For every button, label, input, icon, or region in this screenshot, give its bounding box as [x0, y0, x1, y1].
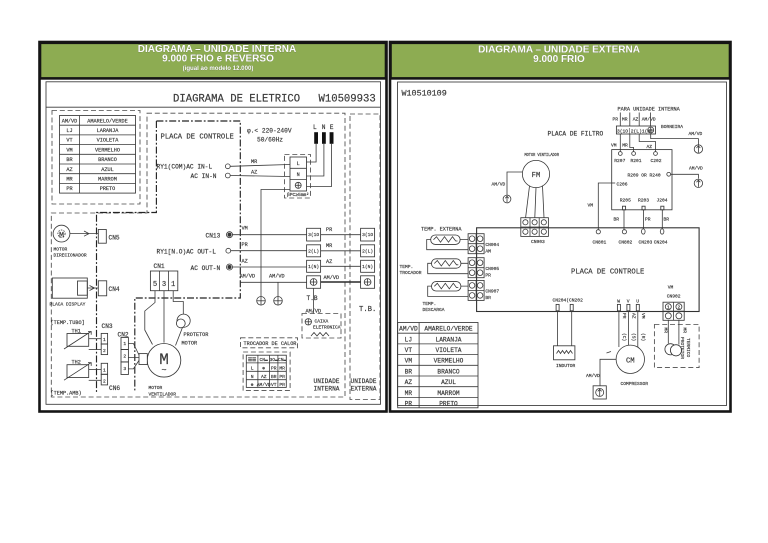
wire FM to ground	[507, 172, 522, 195]
svg-text:AC IN-N: AC IN-N	[191, 173, 217, 180]
svg-text:3(1O: 3(1O	[362, 232, 373, 238]
svg-text:CN903: CN903	[531, 239, 545, 245]
svg-text:W10510109: W10510109	[402, 89, 447, 99]
earth symbol FM	[503, 195, 511, 203]
wire U to compressor, colour VM	[637, 312, 639, 348]
svg-text:CN▬: CN▬	[260, 357, 269, 363]
svg-text:AMARELO/VERDE: AMARELO/VERDE	[424, 326, 473, 333]
wire R240 to earth 2	[671, 174, 699, 178]
svg-text:⊕: ⊕	[251, 383, 254, 388]
svg-text:1: 1	[123, 341, 126, 347]
svg-text:MR: MR	[405, 390, 413, 397]
right panel outer frame	[390, 42, 731, 412]
wire protector to motor	[176, 327, 183, 345]
ground symbol 1	[257, 297, 266, 306]
connector CN1 pins 5 3 1	[150, 271, 177, 291]
svg-text:AM/VD: AM/VD	[324, 275, 340, 281]
svg-text:CN204(CN202: CN204(CN202	[553, 298, 584, 304]
svg-text:AZUL: AZUL	[101, 167, 113, 173]
wire R205 to CN802, colour BR	[623, 210, 625, 230]
placa de filtro board box	[612, 150, 672, 210]
svg-text:5: 5	[153, 281, 157, 289]
wires FM to CN903	[526, 186, 544, 218]
svg-text:TEMP.: TEMP.	[423, 301, 437, 307]
mains terminal block dashed enclosure	[285, 155, 311, 199]
svg-text:T.B: T.B	[307, 295, 318, 302]
svg-text:RY1[N.O)AC OUT-L: RY1[N.O)AC OUT-L	[157, 248, 217, 255]
svg-text:[TEMP.AMB): [TEMP.AMB)	[51, 391, 82, 397]
connector CN905	[468, 258, 484, 278]
svg-text:M: M	[59, 230, 64, 240]
svg-text:(igual ao modelo 12.000): (igual ao modelo 12.000)	[183, 65, 254, 72]
earth wire from mains terminal down	[261, 190, 290, 297]
svg-text:TROCADOR: TROCADOR	[400, 270, 422, 276]
svg-text:VT: VT	[405, 347, 413, 354]
svg-text:PR: PR	[66, 186, 72, 192]
svg-text:L: L	[297, 161, 300, 167]
interconnect wire PR	[321, 234, 361, 236]
earth symbol in mains terminal	[295, 182, 301, 188]
wire compressor to earth box	[600, 352, 616, 386]
terminal circle AC IN-N	[225, 173, 230, 178]
connector CN802	[622, 230, 626, 234]
wire color legend table (external)	[398, 323, 478, 408]
connector CN3	[101, 333, 107, 354]
unidade interna dashed boundary box	[51, 113, 345, 397]
connector CN801	[596, 230, 600, 234]
thermistor temp descarga	[432, 282, 461, 291]
svg-text:3O▬: 3O▬	[270, 357, 279, 363]
protetor termico dashed box	[654, 325, 699, 368]
svg-text:R205: R205	[620, 198, 631, 204]
svg-text:BR: BR	[271, 374, 277, 380]
svg-text:R203: R203	[638, 198, 649, 204]
svg-text:PR: PR	[279, 374, 285, 380]
svg-text:VM: VM	[242, 226, 248, 232]
terminal dot AC OUT-N	[228, 265, 232, 269]
terminal dot CN13	[228, 233, 232, 237]
wire motor direcionador to CN5	[70, 231, 98, 236]
svg-text:TEMP.: TEMP.	[400, 264, 414, 270]
svg-text:PROTETOR: PROTETOR	[184, 332, 209, 338]
svg-text:φ.< 220-240V: φ.< 220-240V	[247, 128, 292, 135]
wire C206 to CN801	[598, 183, 611, 230]
protetor termico bimetal	[665, 344, 682, 356]
svg-text:AZ: AZ	[66, 167, 72, 173]
svg-text:N: N	[297, 172, 300, 178]
left inner thin box	[46, 82, 381, 405]
svg-text:BR: BR	[614, 217, 620, 223]
terminal C206	[612, 182, 616, 184]
svg-text:CN4: CN4	[109, 286, 120, 293]
placa de controle dash-dot board boundary	[135, 121, 241, 392]
svg-text:CN3: CN3	[102, 323, 113, 330]
svg-text:PR: PR	[405, 401, 413, 408]
svg-text:AM/VD: AM/VD	[269, 274, 285, 280]
wire CN1 pin3 to motor	[163, 291, 165, 343]
svg-text:L: L	[251, 365, 254, 371]
svg-text:AZ: AZ	[261, 374, 267, 380]
wire CN202 to indutor	[571, 312, 573, 346]
svg-text:CN▬: CN▬	[278, 357, 287, 363]
svg-text:UNIDADE: UNIDADE	[314, 378, 340, 385]
svg-text:2(L): 2(L)	[362, 248, 373, 254]
stub terminal V	[627, 304, 630, 310]
earth terminal symbol external T.B.	[364, 279, 371, 286]
wire color legend table (internal)	[60, 116, 136, 194]
svg-text:1(N): 1(N)	[308, 264, 319, 270]
svg-text:AM: AM	[485, 248, 491, 254]
wire R203 to CN203, colour PR	[643, 210, 645, 229]
stub terminal W	[617, 304, 620, 310]
terminal C202	[654, 152, 658, 156]
svg-text:1: 1	[103, 367, 106, 373]
svg-text:MR: MR	[622, 117, 628, 123]
svg-text:AZ: AZ	[326, 259, 332, 265]
wire AC OUT-N to T.B. 1(N), colour AZ	[233, 266, 307, 268]
svg-text:R201: R201	[631, 158, 642, 164]
wire N prong to terminal block	[307, 144, 324, 176]
motor direcionador M	[53, 225, 70, 242]
svg-text:VM: VM	[66, 147, 72, 153]
svg-text:BR: BR	[405, 368, 413, 375]
wire borneira to earth 1	[651, 134, 699, 145]
svg-text:N: N	[322, 124, 326, 131]
svg-text:AM/VD: AM/VD	[689, 165, 703, 171]
interconnect wire MR	[321, 250, 361, 252]
svg-text:PR: PR	[613, 117, 619, 123]
svg-text:2: 2	[123, 354, 126, 360]
wire CN204 to indutor	[557, 312, 559, 346]
svg-text:CN905: CN905	[485, 266, 499, 272]
svg-text:PR: PR	[279, 382, 285, 388]
loop wire temp descarga to CN907	[428, 286, 468, 296]
svg-text:DIAGRAMA DE ELETRICO: DIAGRAMA DE ELETRICO	[173, 94, 300, 106]
stub terminal CN202	[570, 304, 573, 310]
borneira terminal strip	[616, 126, 655, 134]
motor terminal box	[139, 354, 147, 365]
svg-text:BR: BR	[664, 217, 670, 223]
svg-text:AC OUT-N: AC OUT-N	[191, 265, 221, 272]
earth terminal symbol internal T.B.	[310, 279, 317, 286]
svg-text:CAIXA: CAIXA	[315, 319, 329, 325]
svg-text:BORNEIRA: BORNEIRA	[661, 124, 683, 130]
right inner thin box	[398, 82, 727, 406]
svg-text:E: E	[330, 124, 334, 131]
svg-text:PLACA DE CONTROLE: PLACA DE CONTROLE	[571, 269, 644, 277]
svg-text:R209 OR R240: R209 OR R240	[628, 173, 661, 179]
svg-text:LJ: LJ	[66, 128, 72, 134]
svg-text:2: 2	[103, 378, 106, 384]
svg-text:CN802: CN802	[619, 239, 633, 245]
svg-text:VERMELHO: VERMELHO	[95, 147, 120, 153]
connector CN902	[663, 302, 684, 320]
svg-text:50/60Hz: 50/60Hz	[257, 137, 283, 144]
svg-text:AM/VD: AM/VD	[586, 373, 600, 379]
stub terminal U	[636, 304, 639, 310]
svg-text:AM/VD: AM/VD	[257, 382, 271, 388]
indutor	[554, 346, 575, 360]
svg-text:BR: BR	[485, 295, 491, 301]
ground stub from AM/VD wire	[277, 282, 279, 296]
unidade externa dashed boundary box	[350, 114, 380, 400]
connector CN904	[468, 234, 484, 254]
T.B. terminal block external side	[361, 228, 375, 288]
wires TH1 to CN3	[89, 338, 102, 340]
svg-text:VM: VM	[405, 358, 413, 365]
earth symbol in box (compressor)	[593, 386, 606, 399]
terminal R201	[632, 152, 636, 156]
svg-text:PR: PR	[645, 217, 651, 223]
caixa eletronica dashed box	[302, 314, 341, 339]
svg-text:2: 2	[103, 348, 106, 354]
svg-text:LARANJA: LARANJA	[436, 336, 462, 343]
svg-text:PR: PR	[242, 242, 248, 248]
svg-text:3(1O: 3(1O	[308, 232, 319, 238]
T.B. terminal block internal side	[307, 228, 321, 288]
svg-text:ELETRONICA: ELETRONICA	[313, 325, 341, 331]
wire borneira to R201, colour MR	[630, 134, 634, 152]
svg-text:VENTILADOR: VENTILADOR	[149, 392, 177, 398]
svg-text:2(L): 2(L)	[308, 248, 319, 254]
svg-text:MARROM: MARROM	[98, 177, 117, 183]
wire CN902-1 to protetor, colour MR	[667, 320, 669, 343]
svg-text:CN902: CN902	[667, 294, 681, 300]
svg-text:3: 3	[123, 366, 126, 372]
wire V to compressor, colour AZ	[627, 312, 629, 346]
svg-text:TROCADOR DE CALOR: TROCADOR DE CALOR	[244, 341, 297, 347]
svg-text:AZ: AZ	[633, 117, 639, 123]
svg-text:VIOLETA: VIOLETA	[436, 347, 462, 354]
ground symbol 2	[274, 297, 283, 306]
connector CN4	[98, 281, 106, 296]
svg-text:MR: MR	[279, 365, 285, 371]
svg-text:T.B.: T.B.	[359, 306, 376, 314]
svg-text:COMPRESSOR: COMPRESSOR	[621, 381, 649, 387]
compressor CM	[616, 345, 644, 373]
svg-text:3: 3	[162, 281, 166, 289]
svg-text:AMARELO/VERDE: AMARELO/VERDE	[87, 118, 127, 124]
svg-text:VM: VM	[588, 203, 594, 209]
svg-text:C206: C206	[617, 182, 628, 188]
svg-text:AM/VD: AM/VD	[399, 326, 418, 333]
svg-text:N: N	[251, 374, 254, 380]
svg-text:CN204: CN204	[654, 239, 668, 245]
svg-text:1(N): 1(N)	[362, 264, 373, 270]
svg-text:TEMP. EXTERNA: TEMP. EXTERNA	[421, 227, 462, 233]
connector CN903	[521, 218, 549, 237]
connector CN6	[101, 363, 107, 385]
wire AC IN-N to N terminal, colour AZ	[230, 176, 290, 177]
wire AC IN-L to L terminal, colour MR	[230, 165, 290, 167]
svg-text:V: V	[627, 299, 630, 305]
svg-text:CM: CM	[626, 357, 635, 365]
svg-text:BRANCO: BRANCO	[437, 368, 460, 375]
svg-text:PLACA DE CONTROLE: PLACA DE CONTROLE	[161, 134, 234, 142]
svg-text:U: U	[636, 299, 639, 305]
square terminal R203	[642, 206, 645, 210]
wire CN902-2 to protetor, colour MR	[678, 320, 680, 344]
thermistor temp trocador	[432, 259, 461, 268]
svg-text:βPC≥5mm²: βPC≥5mm²	[287, 192, 309, 198]
svg-text:CN907: CN907	[485, 289, 499, 295]
terminal circle AC OUT-L	[226, 248, 231, 253]
svg-text:VT: VT	[271, 382, 277, 388]
wire J204 to CN204, colour BR	[661, 210, 663, 229]
svg-text:MOTOR: MOTOR	[149, 385, 163, 391]
svg-text:MR: MR	[66, 177, 72, 183]
svg-text:C202: C202	[651, 158, 662, 164]
svg-text:AM/VD: AM/VD	[689, 131, 703, 137]
fan motor FM	[522, 160, 549, 187]
loop wire temp trocador to CN905	[428, 263, 468, 273]
wire AC OUT-L to T.B. 2(L), colour PR	[231, 250, 307, 252]
mains terminal block L/N/earth	[290, 157, 307, 191]
terminal R207	[618, 152, 622, 156]
caixa eletronica earth wire	[313, 288, 315, 313]
wire W to compressor, colour PR	[618, 312, 620, 348]
svg-text:☰☰: ☰☰	[248, 357, 257, 363]
connector CN204	[660, 229, 664, 234]
svg-text:VIOLETA: VIOLETA	[97, 138, 120, 144]
wire CN1 pin1 to protector	[173, 291, 183, 314]
left header green bar	[40, 43, 386, 79]
wire E prong to terminal block	[307, 144, 332, 187]
svg-text:UNIDADE: UNIDADE	[351, 378, 377, 385]
svg-text:L: L	[313, 124, 317, 131]
svg-text:PLACA DE FILTRO: PLACA DE FILTRO	[548, 131, 604, 138]
svg-text:INDUTOR: INDUTOR	[556, 363, 576, 369]
svg-text:J204: J204	[657, 198, 668, 204]
svg-text:FM: FM	[532, 172, 541, 180]
svg-text:RY1(COM)AC IN-L: RY1(COM)AC IN-L	[157, 164, 213, 171]
svg-text:VERMELHO: VERMELHO	[434, 358, 464, 365]
svg-text:PR: PR	[485, 272, 491, 278]
svg-text:BR: BR	[66, 157, 72, 163]
svg-text:LJ: LJ	[405, 336, 412, 343]
wire borneira to C202, colour AZ	[639, 134, 655, 152]
svg-text:W: W	[617, 299, 620, 305]
earth symbol 2 (right column)	[694, 179, 702, 187]
svg-text:AZ: AZ	[405, 379, 413, 386]
svg-text:MOTOR VENTILADOR: MOTOR VENTILADOR	[525, 152, 560, 158]
svg-text:1: 1	[103, 337, 106, 343]
connector CN907	[468, 280, 484, 300]
svg-text:MR: MR	[622, 143, 628, 149]
svg-text:PLACA DISPLAY: PLACA DISPLAY	[50, 302, 86, 308]
svg-text:MOTOR: MOTOR	[54, 247, 68, 253]
svg-text:AZUL: AZUL	[441, 379, 456, 386]
wires CN2 to motor box	[128, 344, 139, 369]
svg-text:AZ: AZ	[251, 170, 257, 176]
wires TH2 to CN6	[89, 369, 102, 371]
svg-text:MOTOR: MOTOR	[182, 341, 198, 347]
wire CN1 pin5 to motor	[145, 291, 155, 345]
connector CN5	[98, 230, 106, 244]
trocador pin table	[246, 355, 286, 388]
svg-text:AM/VD: AM/VD	[492, 182, 506, 188]
wire color legend table (internal) dashed enclosure	[52, 111, 140, 205]
motor ventilador (internal)	[147, 344, 181, 378]
wire borneira to R207, colour VM	[619, 134, 621, 152]
svg-text:AZ: AZ	[242, 258, 248, 264]
svg-text:PARA UNIDADE INTERNA: PARA UNIDADE INTERNA	[618, 107, 681, 113]
svg-text:2: 2	[678, 304, 681, 310]
loop wire temp externa to CN904	[427, 240, 468, 250]
connector CN203	[642, 229, 646, 234]
chassis symbol	[311, 333, 329, 337]
svg-text:[TEMP.TUBO]: [TEMP.TUBO]	[51, 320, 85, 326]
placa de controle (external) board box	[477, 228, 699, 312]
stub terminal CN204	[556, 304, 559, 310]
svg-text:DESCARGA: DESCARGA	[423, 307, 445, 313]
svg-text:VM: VM	[668, 285, 674, 291]
svg-text:1: 1	[667, 304, 670, 310]
svg-text:EXTERNA: EXTERNA	[351, 386, 377, 393]
svg-text:PR: PR	[271, 365, 277, 371]
svg-text:~: ~	[161, 366, 166, 376]
left panel outer frame	[40, 42, 387, 412]
trocador dashed enclosure	[243, 352, 290, 391]
svg-text:VT: VT	[66, 138, 72, 144]
svg-text:PR: PR	[326, 227, 332, 233]
wire stubs to borneira with colour labels PR MR AZ AM/VD	[613, 113, 656, 127]
earth wire AM/VD from board to T.B.	[240, 281, 306, 283]
thermistor temp externa	[431, 235, 460, 244]
svg-text:W10509933: W10509933	[319, 94, 376, 106]
svg-text:AM/VD: AM/VD	[240, 274, 256, 280]
svg-text:CN6: CN6	[109, 385, 120, 392]
svg-text:LARANJA: LARANJA	[97, 128, 120, 134]
svg-text:9.000 FRIO e REVERSO: 9.000 FRIO e REVERSO	[162, 54, 274, 65]
svg-text:AZ: AZ	[647, 144, 653, 150]
square terminal R205	[623, 206, 626, 210]
svg-text:CN13: CN13	[206, 232, 221, 239]
svg-text:CN801: CN801	[593, 239, 607, 245]
svg-text:AM/VD: AM/VD	[642, 117, 656, 123]
right header green bar	[391, 43, 731, 79]
title separator line	[46, 106, 381, 108]
svg-text:PRETO: PRETO	[439, 401, 458, 408]
wire placa display to CN4	[87, 286, 98, 291]
svg-text:MR: MR	[326, 243, 332, 249]
svg-text:MARROM: MARROM	[437, 390, 460, 397]
svg-text:CN904: CN904	[485, 242, 499, 248]
svg-text:1: 1	[171, 281, 175, 289]
svg-text:CN5: CN5	[109, 235, 120, 242]
interconnect earth wire AM/VD (thick)	[321, 281, 361, 283]
placa display box	[52, 278, 87, 298]
svg-text:AM/VD: AM/VD	[62, 118, 78, 124]
svg-text:PRETO: PRETO	[100, 186, 116, 192]
terminal circle AC IN-L	[225, 164, 230, 169]
wire CN13 to T.B. 3(1O), colour VM	[233, 234, 307, 236]
svg-text:CN1: CN1	[154, 263, 165, 270]
svg-text:DIRECIONADOR: DIRECIONADOR	[54, 253, 87, 259]
svg-text:R207: R207	[614, 158, 625, 164]
svg-text:MR: MR	[251, 159, 257, 165]
wire L prong to terminal block	[307, 144, 317, 162]
svg-text:INTERNA: INTERNA	[314, 386, 340, 393]
earth symbol caixa	[305, 319, 311, 325]
connector CN2 pins 1 2 3	[121, 338, 128, 375]
svg-text:⊕: ⊕	[262, 366, 265, 371]
interconnect wire AZ	[321, 265, 361, 267]
protetor motor thermal protector	[176, 314, 190, 328]
svg-text:9.000 FRIO: 9.000 FRIO	[533, 54, 585, 65]
square terminal J204	[661, 206, 664, 210]
trocador de calor label box	[241, 338, 298, 348]
